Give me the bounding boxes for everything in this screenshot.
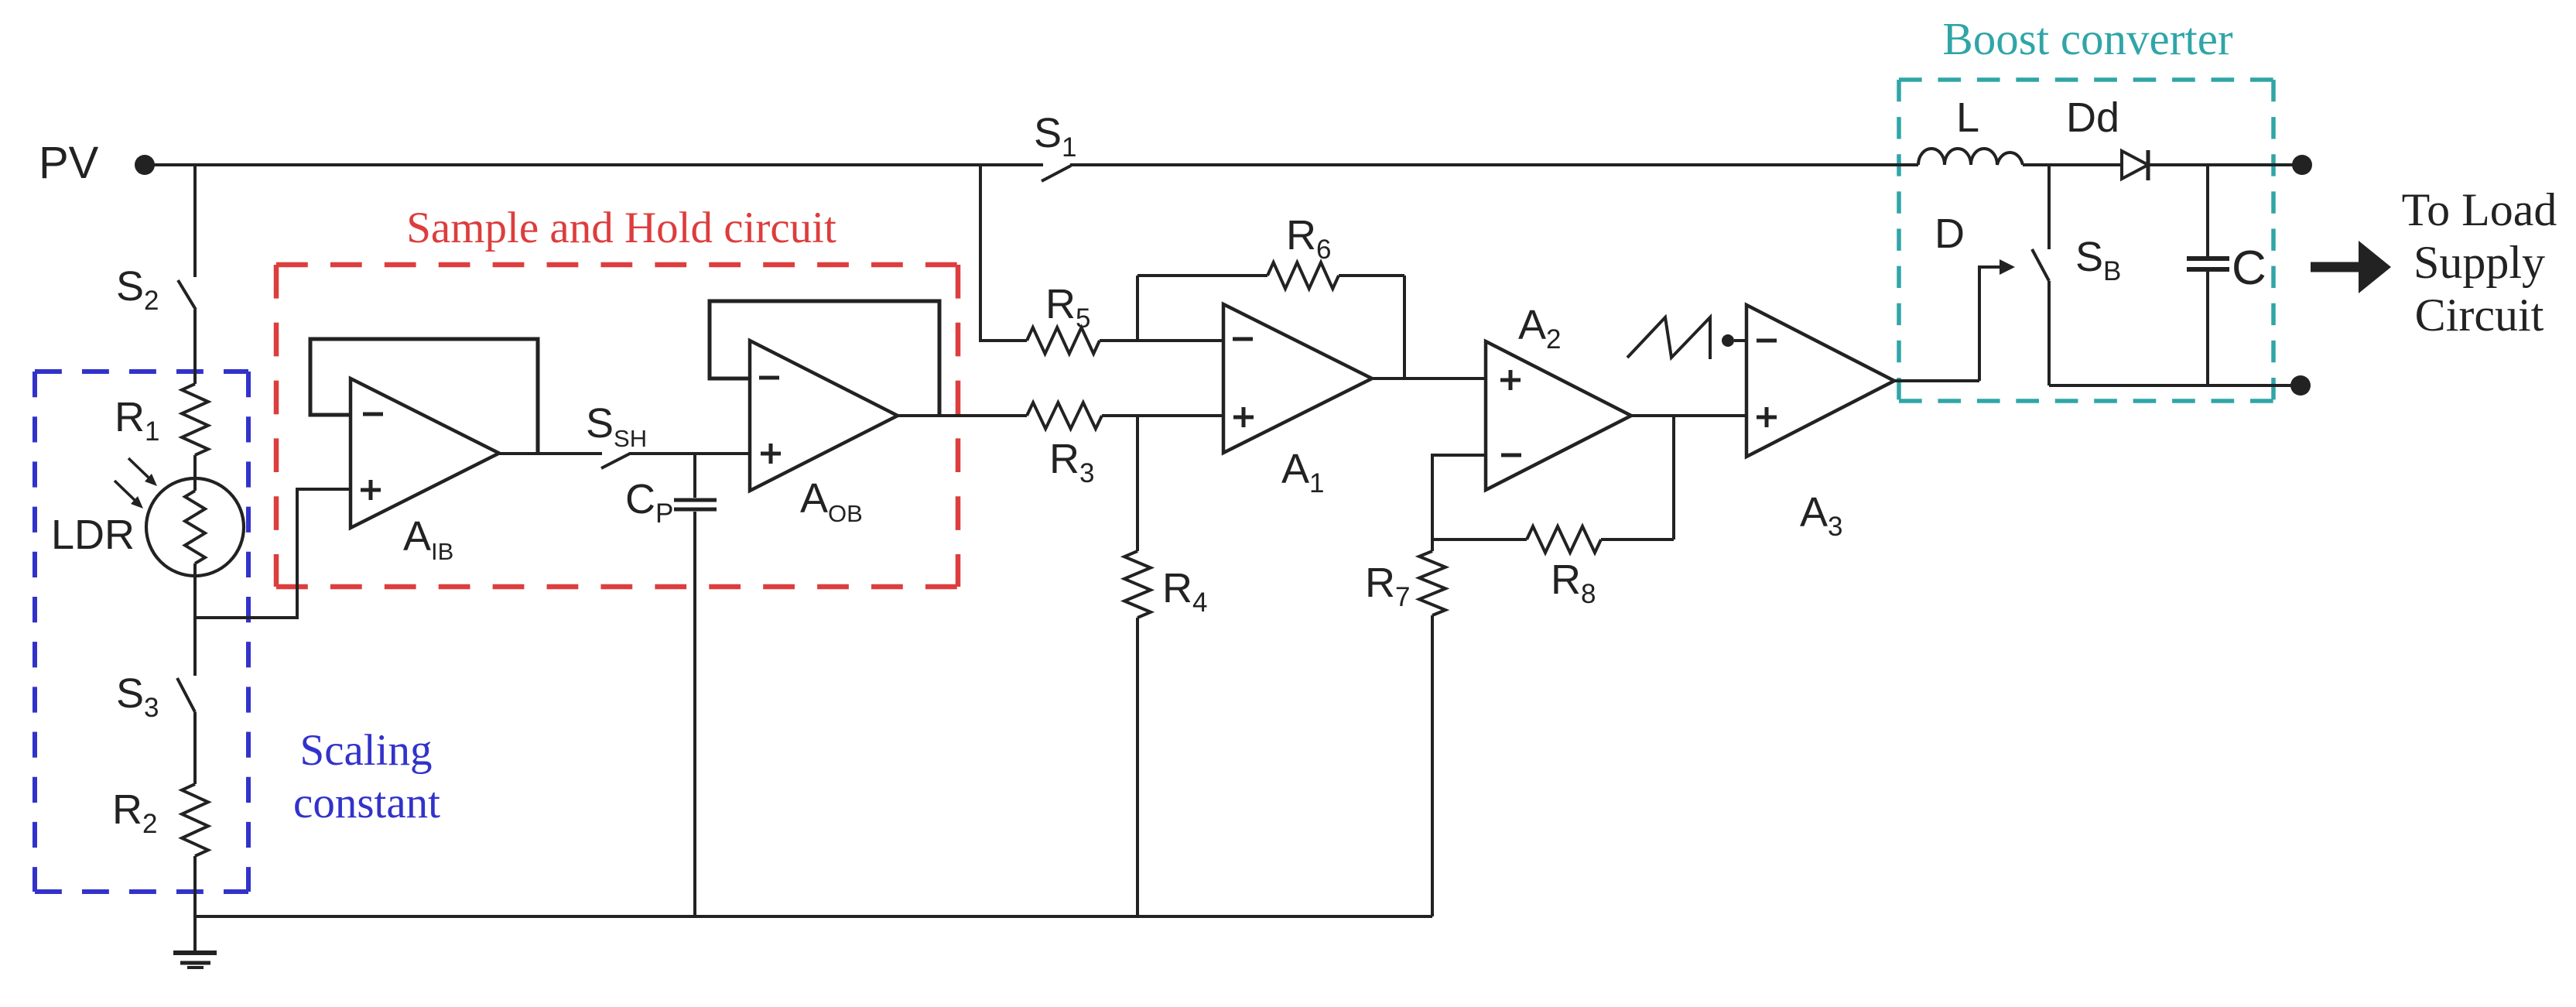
svg-text:Sample and Hold circuit: Sample and Hold circuit [406, 204, 836, 252]
svg-text:C: C [2232, 241, 2266, 295]
svg-text:Boost converter: Boost converter [1942, 13, 2233, 64]
svg-text:Circuit: Circuit [2415, 289, 2544, 341]
svg-text:D: D [1935, 211, 1965, 257]
svg-text:L: L [1956, 94, 1979, 141]
svg-text:Dd: Dd [2066, 94, 2119, 141]
svg-text:Scaling: Scaling [300, 726, 433, 775]
svg-text:To Load: To Load [2402, 184, 2557, 235]
svg-text:LDR: LDR [51, 512, 135, 558]
svg-text:constant: constant [293, 779, 440, 827]
svg-text:Supply: Supply [2414, 237, 2545, 288]
svg-text:PV: PV [39, 138, 99, 188]
